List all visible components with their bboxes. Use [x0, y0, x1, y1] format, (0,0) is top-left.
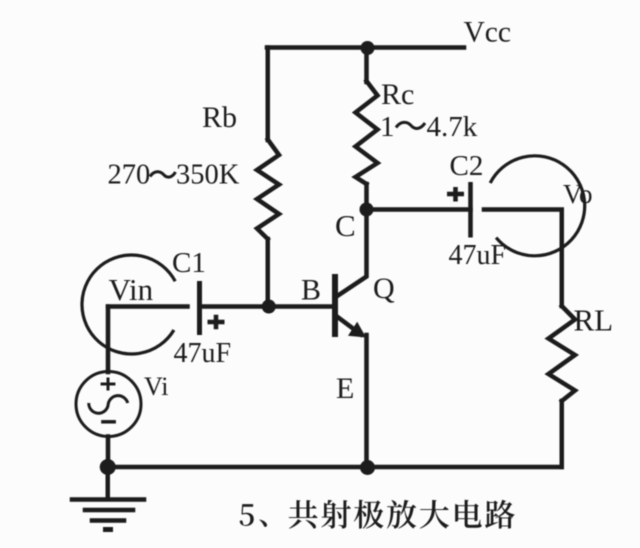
svg-text:B: B [301, 274, 321, 307]
capacitor C1 plate [197, 281, 202, 335]
capacitor C2 plate [468, 182, 473, 238]
junction dot at ground node [100, 459, 116, 475]
svg-text:E: E [336, 372, 354, 405]
bottom rail wire [108, 465, 562, 470]
wire: emitter to bottom rail [364, 335, 369, 467]
transistor Q1 base bar [332, 274, 338, 337]
wire: node to ground [106, 467, 111, 498]
wire: Rc branch lower [364, 184, 369, 210]
resistor RL [549, 306, 576, 401]
junction dot at Vcc rail [361, 41, 375, 55]
svg-text:Q: Q [373, 272, 395, 305]
svg-text:Vin: Vin [109, 272, 154, 307]
wire: Rb branch lower [266, 239, 271, 307]
signal source Vi circle [76, 372, 141, 437]
wire: C2 to output corner [484, 210, 562, 307]
wire: Rb branch upper [266, 48, 271, 141]
svg-text:C1: C1 [172, 247, 206, 279]
junction dot at node C [360, 203, 374, 217]
wire: C node to C2 [367, 207, 471, 212]
minus sign inside Vi [101, 420, 116, 424]
wire: Rc branch upper [364, 48, 369, 83]
svg-text:Rc: Rc [381, 78, 414, 111]
junction dot at emitter/bottom rail [360, 460, 375, 475]
svg-text:C: C [335, 208, 356, 243]
svg-text:Vi: Vi [144, 372, 168, 401]
transistor Q1 collector [335, 210, 367, 298]
wire: source to C1 [108, 304, 188, 309]
svg-text:1: 1 [380, 111, 395, 143]
resistor Rc [356, 81, 378, 184]
plus sign C2 [447, 187, 464, 202]
svg-text:350K: 350K [176, 160, 240, 191]
svg-text:Vcc: Vcc [464, 17, 512, 49]
resistor Rb [257, 140, 279, 240]
transistor Q1 emitter arrowhead [348, 322, 366, 338]
svg-text:47uF: 47uF [449, 240, 507, 271]
transistor Q1 emitter [335, 315, 361, 335]
wire: RL to bottom rail [560, 401, 565, 467]
ground symbol [72, 497, 144, 502]
plus sign inside Vi [101, 378, 116, 391]
svg-text:C2: C2 [450, 150, 484, 182]
svg-text:47uF: 47uF [174, 338, 232, 369]
svg-text:4.7k: 4.7k [427, 111, 478, 143]
svg-text:Vo: Vo [563, 179, 593, 209]
wire: Vcc rail top [267, 45, 464, 50]
sine symbol inside Vi [89, 396, 128, 414]
input loop circle (Vin) [82, 255, 175, 354]
plus sign C1 [208, 315, 225, 329]
svg-text:RL: RL [574, 303, 614, 338]
svg-text:270: 270 [108, 160, 151, 191]
junction dot at node B [262, 300, 276, 314]
wire: C1 to base [200, 304, 333, 309]
caption: 5、共射极放大电路 [240, 500, 515, 529]
wire: Vin loop to Vi source [106, 307, 111, 373]
wire: Vi source to ground node [106, 437, 111, 468]
svg-text:Rb: Rb [202, 101, 237, 134]
output loop circle (Vo) [490, 156, 584, 256]
